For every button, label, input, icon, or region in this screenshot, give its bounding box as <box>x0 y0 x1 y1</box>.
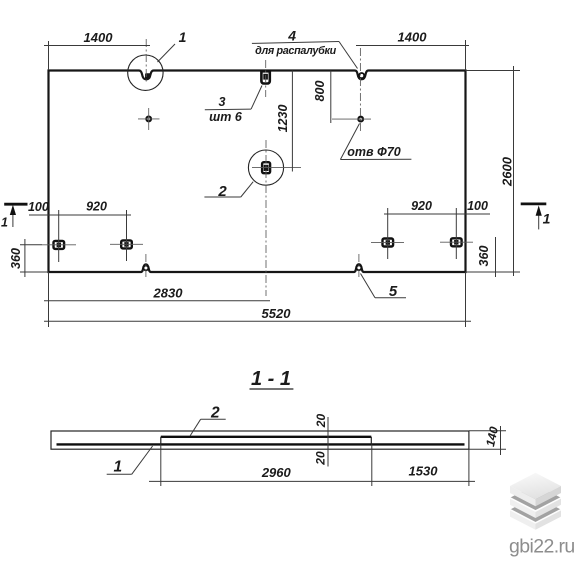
svg-text:20: 20 <box>314 451 328 466</box>
svg-text:2600: 2600 <box>500 156 515 187</box>
svg-text:360: 360 <box>477 246 491 267</box>
svg-text:отв Ф70: отв Ф70 <box>347 145 400 159</box>
svg-text:шт 6: шт 6 <box>209 110 243 124</box>
svg-text:1400: 1400 <box>84 30 114 45</box>
svg-text:1230: 1230 <box>276 105 290 133</box>
svg-text:1: 1 <box>179 29 187 45</box>
svg-text:1400: 1400 <box>398 30 428 45</box>
svg-text:800: 800 <box>313 81 327 102</box>
svg-text:100: 100 <box>467 199 488 213</box>
svg-text:140: 140 <box>483 425 501 448</box>
svg-text:920: 920 <box>411 199 432 213</box>
svg-text:4: 4 <box>287 27 296 43</box>
svg-text:1: 1 <box>113 459 122 476</box>
svg-text:2960: 2960 <box>261 465 292 480</box>
svg-text:360: 360 <box>9 248 23 269</box>
svg-text:1530: 1530 <box>409 464 439 479</box>
svg-text:100: 100 <box>28 200 49 214</box>
svg-text:3: 3 <box>219 95 226 109</box>
svg-text:1: 1 <box>1 216 8 230</box>
svg-text:gbi22.ru: gbi22.ru <box>509 535 575 557</box>
svg-text:20: 20 <box>314 414 328 429</box>
svg-text:для распалубки: для распалубки <box>255 45 336 57</box>
svg-text:920: 920 <box>86 200 107 214</box>
svg-text:1: 1 <box>543 211 551 227</box>
svg-text:1 - 1: 1 - 1 <box>251 368 291 390</box>
svg-text:5520: 5520 <box>262 306 292 321</box>
svg-text:2830: 2830 <box>153 286 184 301</box>
